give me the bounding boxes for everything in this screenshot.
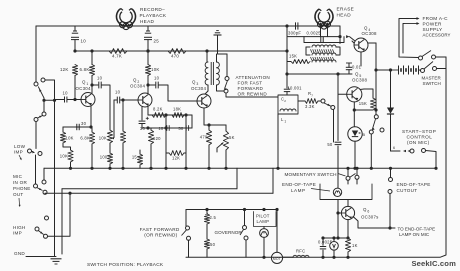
svg-text:LOW: LOW	[14, 144, 26, 149]
label governor	[215, 230, 243, 235]
label switch position	[87, 262, 164, 268]
erase head leads	[321, 23, 328, 37]
resistor 470 top	[168, 49, 186, 59]
resistor 6.8K (Q1 emitter)	[80, 127, 94, 170]
svg-text:50: 50	[210, 242, 216, 247]
pilot lamp box	[254, 212, 277, 227]
wire pole3 down	[35, 155, 37, 184]
svg-text:SUPPLY: SUPPLY	[423, 27, 444, 32]
wire pole5 right	[48, 192, 72, 237]
label low imp	[14, 144, 26, 160]
capacitor 10 (Q1-Q2 coupling)	[92, 76, 110, 131]
svg-text:0.001: 0.001	[290, 86, 302, 91]
wire motor column	[275, 208, 278, 252]
svg-text:1K: 1K	[352, 243, 358, 248]
svg-text:HEAD: HEAD	[140, 19, 155, 24]
label pilot lamp	[256, 214, 270, 225]
svg-text:12K: 12K	[60, 67, 69, 72]
svg-text:FORWARD: FORWARD	[238, 86, 264, 91]
svg-text:ERASE: ERASE	[337, 7, 355, 12]
resistor 10K (volume top)	[99, 130, 113, 143]
svg-text:ACCESSORY: ACCESSORY	[423, 33, 451, 38]
capacitor 50 (sense)	[327, 142, 341, 188]
svg-text:10: 10	[154, 76, 160, 81]
capacitor 0.0025 (bottom)	[318, 236, 333, 259]
contact (371)	[369, 130, 373, 134]
svg-text:SWITCH POSITION: PLAYBACK: SWITCH POSITION: PLAYBACK	[87, 262, 164, 268]
wire T1 right top ground	[216, 54, 218, 62]
label master switch	[422, 76, 442, 87]
potentiometer 5K	[223, 125, 234, 170]
label record-playback head	[140, 7, 167, 24]
master switch pole A	[419, 51, 436, 61]
svg-text:MOMENTARY SWITCH: MOMENTARY SWITCH	[285, 172, 337, 177]
capacitor 50 (elec)	[178, 125, 188, 131]
svg-text:10K: 10K	[66, 136, 74, 141]
svg-text:1: 1	[284, 119, 286, 123]
svg-text:TO END-OF-TAPE: TO END-OF-TAPE	[398, 227, 436, 232]
svg-text:CONTROL: CONTROL	[407, 135, 433, 140]
svg-text:END-OF-TAPE: END-OF-TAPE	[397, 182, 431, 187]
svg-text:15K: 15K	[289, 54, 297, 59]
capacitor 10 (elec)	[158, 125, 169, 131]
resistor 10K (pot)	[120, 98, 125, 169]
wire x376 contact	[374, 108, 377, 114]
wire lamp down	[353, 141, 356, 170]
wire pole4 to busB	[45, 193, 46, 194]
switch R7 out	[321, 99, 335, 110]
svg-text:RECORD–: RECORD–	[140, 7, 165, 12]
resistor 18K	[172, 107, 184, 118]
svg-text:RFC: RFC	[296, 249, 305, 254]
wire y128	[146, 126, 192, 129]
capacitor 30 (Q1 bypass)	[77, 121, 87, 130]
wire Q4 emitter	[360, 52, 362, 66]
svg-text:25: 25	[154, 39, 160, 44]
wire governor left upper	[185, 210, 187, 227]
switch pole 1	[34, 78, 45, 98]
battery B1	[389, 66, 421, 75]
wire governor left lower	[188, 240, 190, 257]
wire Q6 base	[336, 200, 341, 215]
svg-text:PLAYBACK: PLAYBACK	[140, 13, 167, 18]
svg-text:12K: 12K	[172, 156, 180, 161]
svg-text:SeekIC.com: SeekIC.com	[411, 259, 456, 268]
resistor 12K	[60, 65, 78, 102]
wire x371 down	[370, 134, 373, 170]
wire switch to L1	[226, 93, 278, 97]
start-stop jack	[391, 146, 438, 170]
svg-text:END-OF-TAPE: END-OF-TAPE	[282, 182, 316, 187]
svg-text:3.3K: 3.3K	[305, 104, 315, 109]
svg-text:IMP: IMP	[13, 231, 22, 236]
wire L1 bottom to rail	[276, 114, 279, 170]
resistor 10K (Q2 collector)	[145, 49, 159, 93]
resistor 15K (osc)	[287, 54, 310, 64]
capacitor 10 (Q2 input)	[114, 90, 138, 104]
resistor 2.5	[204, 208, 216, 224]
label mic in	[13, 174, 31, 207]
svg-text:300pF: 300pF	[288, 31, 301, 36]
wire gov right contact	[243, 208, 246, 257]
wire B+ column	[390, 70, 392, 108]
svg-text:10K: 10K	[151, 67, 160, 72]
svg-text:HIGH: HIGH	[13, 225, 25, 230]
svg-text:15: 15	[132, 155, 138, 160]
wire x376 supply col	[374, 43, 377, 110]
svg-text:GOVERNOR: GOVERNOR	[215, 230, 243, 235]
svg-text:GND: GND	[14, 251, 25, 256]
svg-text:PILOT: PILOT	[256, 214, 270, 219]
diode D1	[387, 108, 394, 152]
label start-stop control	[402, 129, 436, 145]
transistor Q1 OC304	[81, 93, 95, 107]
transformer T2 winding row3	[312, 60, 336, 62]
svg-text:OC308: OC308	[362, 31, 377, 36]
svg-text:OC307s: OC307s	[361, 215, 379, 220]
wire switch to rail	[333, 110, 335, 143]
svg-text:10K: 10K	[99, 136, 107, 141]
svg-text:10: 10	[158, 126, 164, 131]
wire pole2 down	[35, 122, 37, 149]
transformer T2 winding row2	[312, 53, 336, 55]
inductor RFC	[283, 249, 309, 258]
wire supply to battery	[376, 69, 390, 71]
eot lamp box	[320, 180, 372, 200]
resistor 15K (Q5)	[359, 89, 376, 110]
wire T1 primary feed	[206, 51, 208, 62]
svg-text:MASTER: MASTER	[422, 76, 442, 81]
svg-text:10: 10	[63, 91, 69, 96]
wire B+ rail	[42, 168, 437, 184]
transformer T2 core hatch	[311, 49, 334, 60]
wire T2 row ends	[306, 47, 340, 55]
svg-text:B: B	[363, 133, 366, 137]
svg-text:8.2K: 8.2K	[153, 107, 163, 112]
label fast forward	[140, 227, 180, 238]
lamp B (record level)	[348, 127, 366, 141]
label Q1	[76, 80, 91, 92]
capacitor 0.0025	[321, 37, 323, 43]
svg-text:2: 2	[284, 99, 286, 103]
svg-text:470: 470	[171, 54, 179, 59]
resistor 6.8K (Q1 collector)	[80, 49, 95, 93]
switch fast forward	[182, 226, 191, 240]
svg-text:FROM A-C: FROM A-C	[423, 16, 449, 21]
wire Q6 collector	[347, 200, 349, 207]
svg-text:6.8K: 6.8K	[80, 136, 90, 141]
label from ac	[423, 16, 451, 38]
arrow ac 1	[400, 17, 420, 20]
svg-text:OC304: OC304	[191, 86, 206, 91]
svg-text:OR REWIND: OR REWIND	[238, 92, 268, 97]
osc box	[304, 37, 344, 43]
transistor Q6 OC307	[341, 206, 354, 219]
svg-text:POWER: POWER	[423, 22, 443, 27]
wire T1 right to switch	[226, 54, 228, 76]
wire Q6 out	[353, 217, 392, 230]
svg-text:FOR FAST: FOR FAST	[238, 81, 263, 86]
wire right border	[186, 57, 446, 257]
switch pole 3	[28, 149, 43, 156]
svg-text:0.0025: 0.0025	[307, 31, 322, 36]
svg-text:OC308: OC308	[352, 78, 367, 83]
potentiometer 10K wiper	[112, 100, 114, 139]
resistor 8.2K	[152, 107, 166, 118]
svg-text:10: 10	[97, 76, 103, 81]
wire x192 down	[191, 115, 193, 128]
capacitor 25	[144, 26, 152, 53]
node junction x207 bus51	[205, 49, 208, 52]
svg-text:7: 7	[311, 93, 313, 97]
end-of-tape lamp	[333, 188, 341, 196]
svg-text:50: 50	[178, 126, 184, 131]
svg-text:PHONE: PHONE	[13, 186, 31, 191]
wire emitter to 15K	[354, 109, 373, 111]
switch blade lamp	[372, 119, 375, 130]
svg-text:10K: 10K	[60, 154, 68, 159]
label high imp	[13, 225, 25, 236]
wire x166 down	[164, 113, 167, 169]
svg-text:6: 6	[393, 146, 395, 150]
label Q4	[362, 26, 377, 37]
wire bus y51	[75, 50, 287, 52]
svg-text:(ON MIC): (ON MIC)	[407, 140, 430, 145]
transformer T2 winding row1	[312, 45, 336, 47]
svg-text:(OR REWIND): (OR REWIND)	[144, 233, 177, 238]
capacitor 10 (Q2-Q3 coupling)	[148, 76, 197, 102]
thermistor V	[330, 236, 339, 259]
contact stray	[45, 216, 49, 220]
transistor Q2 OC304	[138, 93, 152, 107]
wire Q4 collector	[368, 42, 376, 44]
svg-text:100: 100	[100, 155, 108, 160]
label to eot lamp	[390, 227, 435, 238]
resistor 50 (gov)	[204, 227, 215, 257]
capacitor 30 (Q2 bypass)	[139, 117, 149, 131]
wire Q5 base	[338, 93, 347, 95]
erase head	[315, 9, 333, 29]
node B+ rail junction	[389, 167, 392, 170]
svg-text:LAMP: LAMP	[291, 188, 306, 193]
label Q3	[191, 80, 206, 92]
svg-text:2.5: 2.5	[210, 215, 217, 220]
svg-text:10: 10	[81, 39, 87, 44]
switch pole 5 (high)	[35, 227, 48, 238]
transformer T1 right winding	[217, 62, 220, 85]
resistor R7 3.3K	[298, 91, 321, 109]
resistor 100	[100, 143, 113, 170]
svg-text:OC304: OC304	[130, 84, 145, 89]
svg-text:CUTOUT: CUTOUT	[397, 188, 418, 193]
wire osc bottom	[285, 72, 352, 75]
switch start contact	[374, 115, 378, 119]
wire sense line x338	[336, 72, 339, 140]
svg-text:MIC: MIC	[13, 174, 23, 179]
capacitor 300pF	[285, 22, 301, 35]
wire governor top	[186, 209, 277, 211]
resistor 4.7K	[109, 49, 127, 59]
label end-of-tape lamp	[282, 182, 330, 193]
svg-text:IMP: IMP	[14, 150, 23, 155]
capacitor 0.01 (Q4)	[346, 63, 362, 74]
wire Q1 emitter	[90, 106, 92, 127]
label L1	[281, 117, 286, 123]
wire x340 col	[339, 26, 341, 44]
master switch pole B	[421, 62, 437, 73]
svg-text:LAMP ON MIC: LAMP ON MIC	[399, 232, 430, 237]
svg-text:MOT: MOT	[273, 257, 281, 261]
svg-text:SWITCH: SWITCH	[423, 81, 441, 86]
momentary switch	[346, 167, 359, 181]
svg-text:4.7K: 4.7K	[112, 54, 122, 59]
governor contacts	[207, 224, 248, 240]
node Q1 collector tap	[90, 83, 93, 86]
svg-text:IN OR: IN OR	[13, 180, 27, 185]
motor MOT	[271, 252, 282, 263]
svg-text:10: 10	[115, 90, 121, 95]
switch pole 4 (mic)	[34, 184, 48, 194]
capacitor 10 (Q1 input)	[55, 91, 82, 103]
label gnd	[14, 251, 25, 256]
wire Q4 base	[352, 41, 354, 43]
wire Q3 emitter	[204, 108, 226, 125]
transistor Q3 OC304	[197, 94, 211, 108]
wire switch to border	[436, 57, 447, 69]
resistor 1K	[345, 220, 357, 259]
wire osc y36	[287, 35, 342, 38]
resistor 10K (b)	[60, 150, 73, 170]
label attenuation	[236, 75, 270, 97]
node Q2 collector tap	[146, 83, 149, 86]
svg-text:470: 470	[200, 135, 208, 140]
wire osc left rail	[285, 26, 288, 74]
svg-text:ATTENUATION: ATTENUATION	[236, 75, 270, 80]
svg-text:6.8K: 6.8K	[80, 67, 90, 72]
ground symbol	[26, 257, 62, 265]
label erase head	[337, 7, 355, 18]
transformer T1 core	[211, 62, 213, 85]
svg-text:HEAD: HEAD	[337, 13, 352, 18]
wire y115	[148, 107, 192, 115]
transistor Q5 OC308	[347, 87, 362, 102]
arrow into Q4	[346, 35, 355, 41]
contact (382)	[380, 128, 384, 132]
wire Q5 emitter	[353, 102, 356, 127]
svg-text:LAMP: LAMP	[257, 219, 270, 224]
svg-text:0.01: 0.01	[352, 65, 362, 70]
switch attenuation	[224, 77, 229, 94]
svg-text:18K: 18K	[173, 107, 181, 112]
watermark	[411, 259, 456, 268]
label end-of-tape cutout	[397, 182, 431, 193]
inductor L1 coil	[280, 109, 296, 111]
label momentary switch	[285, 172, 346, 177]
svg-text:50: 50	[327, 142, 333, 147]
svg-text:Q: Q	[364, 26, 368, 31]
label Q5	[352, 72, 367, 83]
capacitor C2 0.001	[281, 74, 302, 103]
svg-text:6: 6	[367, 209, 369, 213]
wire ac loop2	[403, 24, 404, 54]
resistor 15	[132, 150, 143, 168]
resistor 12K	[166, 151, 186, 161]
wire pole1 link	[45, 80, 55, 257]
label Q2	[130, 78, 145, 89]
svg-text:OUT: OUT	[13, 192, 23, 197]
resistor 10K (a)	[60, 127, 73, 150]
wire ac loop1	[399, 19, 418, 58]
wire Q2 emitter	[141, 107, 143, 120]
svg-text:Q: Q	[82, 80, 86, 85]
resistor 470 (Q3)	[200, 123, 212, 169]
arrow ac 2	[404, 22, 420, 25]
record-playback head	[116, 9, 135, 30]
svg-text:OC304: OC304	[76, 86, 91, 91]
wire bias row	[323, 213, 348, 240]
svg-text:Q: Q	[363, 207, 367, 212]
svg-text:15K: 15K	[359, 101, 367, 106]
switch pole 2	[34, 112, 46, 122]
svg-text:30: 30	[81, 121, 87, 126]
label 25	[154, 39, 160, 44]
wire T1 right bottom	[217, 85, 225, 91]
label Q6	[361, 207, 379, 220]
svg-text:620: 620	[153, 136, 161, 141]
wire top supply bus	[36, 25, 340, 27]
wire bus B	[46, 168, 273, 193]
ground (center top)	[214, 31, 228, 54]
svg-text:Q: Q	[355, 72, 359, 77]
resistor 620	[142, 128, 161, 170]
wire x186 down	[184, 113, 187, 169]
wire emitter rail y127	[63, 125, 93, 128]
end-of-tape cutout	[388, 168, 393, 228]
svg-text:5K: 5K	[229, 135, 235, 140]
svg-text:START–STOP: START–STOP	[402, 129, 436, 134]
svg-text:Q: Q	[133, 78, 137, 83]
transistor Q4 OC308	[354, 38, 368, 52]
transformer T1 left winding	[205, 62, 208, 85]
wire left border	[35, 26, 37, 82]
capacitor 10 (left bypass)	[71, 26, 79, 53]
wire T1 to Q3 collector	[205, 85, 208, 94]
pilot lamp	[260, 208, 269, 259]
wiper 5K	[217, 143, 223, 153]
label 0.0025 top	[307, 31, 322, 36]
wire bus A	[62, 168, 237, 254]
svg-text:FAST FORWARD: FAST FORWARD	[140, 227, 180, 232]
label 10	[81, 39, 87, 44]
inductor L1 box	[278, 95, 298, 114]
wire x44 link	[42, 98, 62, 112]
svg-text:Q: Q	[192, 80, 196, 85]
